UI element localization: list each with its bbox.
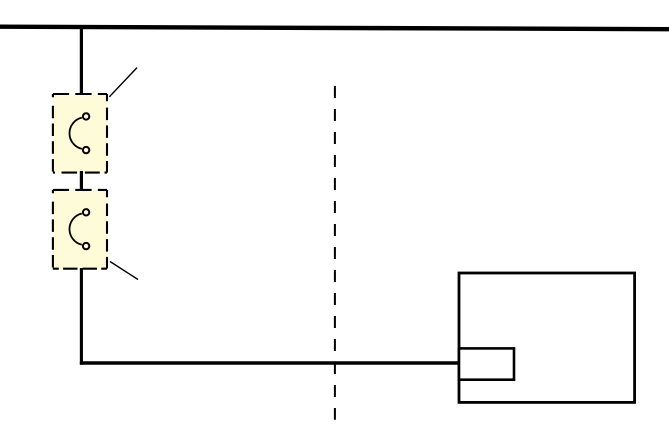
breaker cubicle box 1 (dashed) (53, 94, 107, 173)
circuit breaker CB1 arc blade (69, 118, 81, 149)
dashed boundary centerline (334, 86, 336, 420)
terminal box (459, 348, 514, 379)
load enclosure box (459, 273, 635, 402)
circuit breaker CB2 top contact (83, 209, 89, 215)
breaker cubicle box 2 (dashed) (53, 190, 107, 269)
circuit breaker CB1 top contact (83, 113, 89, 119)
annotation leader line 1 (109, 68, 137, 97)
wire between box 1 and box 2 (80, 171, 83, 191)
wire from busbar to breaker box 1 (80, 27, 83, 95)
busbar (top horizontal bus) (0, 27, 669, 30)
annotation leader line 2 (110, 262, 138, 280)
wire horizontal run to load (80, 361, 459, 365)
circuit breaker CB2 bottom contact (83, 243, 89, 249)
circuit breaker CB1 bottom contact (83, 147, 89, 153)
wire from box 2 down and right to load box (80, 268, 83, 365)
circuit breaker CB2 arc blade (69, 214, 81, 245)
